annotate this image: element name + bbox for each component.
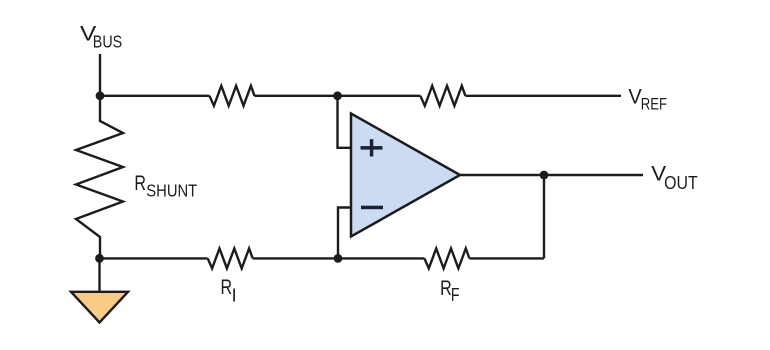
op-amp inverting input symbol (−) bbox=[361, 206, 383, 210]
label R_I bbox=[221, 276, 237, 305]
wire: top rail left segment bbox=[100, 95, 210, 97]
svg-text:F: F bbox=[451, 285, 460, 305]
wire: ground lead bbox=[98, 258, 100, 292]
resistor R_F bbox=[424, 248, 469, 268]
node: shunt low / ground junction bbox=[95, 254, 104, 263]
op-amp noninverting input symbol (+) bbox=[361, 139, 383, 156]
label R_F bbox=[440, 277, 459, 305]
wire: noninverting input feed (down from top rail into op-amp) bbox=[338, 96, 353, 148]
wire: top rail right segment to V_REF terminal bbox=[465, 95, 621, 97]
wire: bottom rail left segment bbox=[100, 257, 208, 259]
wire: feedback bottom segment bbox=[469, 257, 544, 259]
svg-text:BUS: BUS bbox=[93, 32, 122, 52]
svg-text:V: V bbox=[628, 86, 641, 109]
resistor (top-right, unlabeled, to V_REF) bbox=[420, 86, 465, 106]
resistor R_SHUNT (vertical, with leads) bbox=[76, 96, 123, 259]
resistor R_I bbox=[208, 248, 253, 268]
svg-text:R: R bbox=[134, 172, 146, 195]
svg-text:I: I bbox=[232, 286, 237, 306]
wire: feedback vertical segment bbox=[543, 175, 545, 258]
resistor (top-left, unlabeled, between V_BUS node and noninverting feed) bbox=[210, 86, 255, 106]
label V_OUT bbox=[651, 163, 697, 194]
node: noninverting feed junction bbox=[333, 91, 342, 100]
wire: top rail middle segment bbox=[255, 95, 421, 97]
svg-text:OUT: OUT bbox=[664, 173, 698, 193]
wire: V_BUS lead (vertical into top-left node) bbox=[99, 54, 101, 96]
label R_SHUNT bbox=[134, 172, 197, 201]
label V_BUS bbox=[80, 23, 122, 52]
svg-text:REF: REF bbox=[641, 96, 667, 114]
wire: bottom rail middle segment bbox=[253, 257, 425, 259]
svg-text:R: R bbox=[221, 276, 233, 299]
svg-text:SHUNT: SHUNT bbox=[146, 181, 197, 201]
label V_REF bbox=[628, 86, 667, 114]
ground symbol (filled triangle) bbox=[71, 292, 128, 323]
node: V_BUS junction bbox=[96, 91, 105, 100]
wire: output to V_OUT terminal bbox=[460, 174, 643, 176]
node: inverting feed junction bbox=[334, 254, 343, 263]
node: output junction bbox=[540, 171, 549, 180]
op-amp U1 (triangle body) bbox=[351, 114, 460, 237]
wire: inverting input feed (up from bottom rail into op-amp) bbox=[338, 208, 352, 259]
